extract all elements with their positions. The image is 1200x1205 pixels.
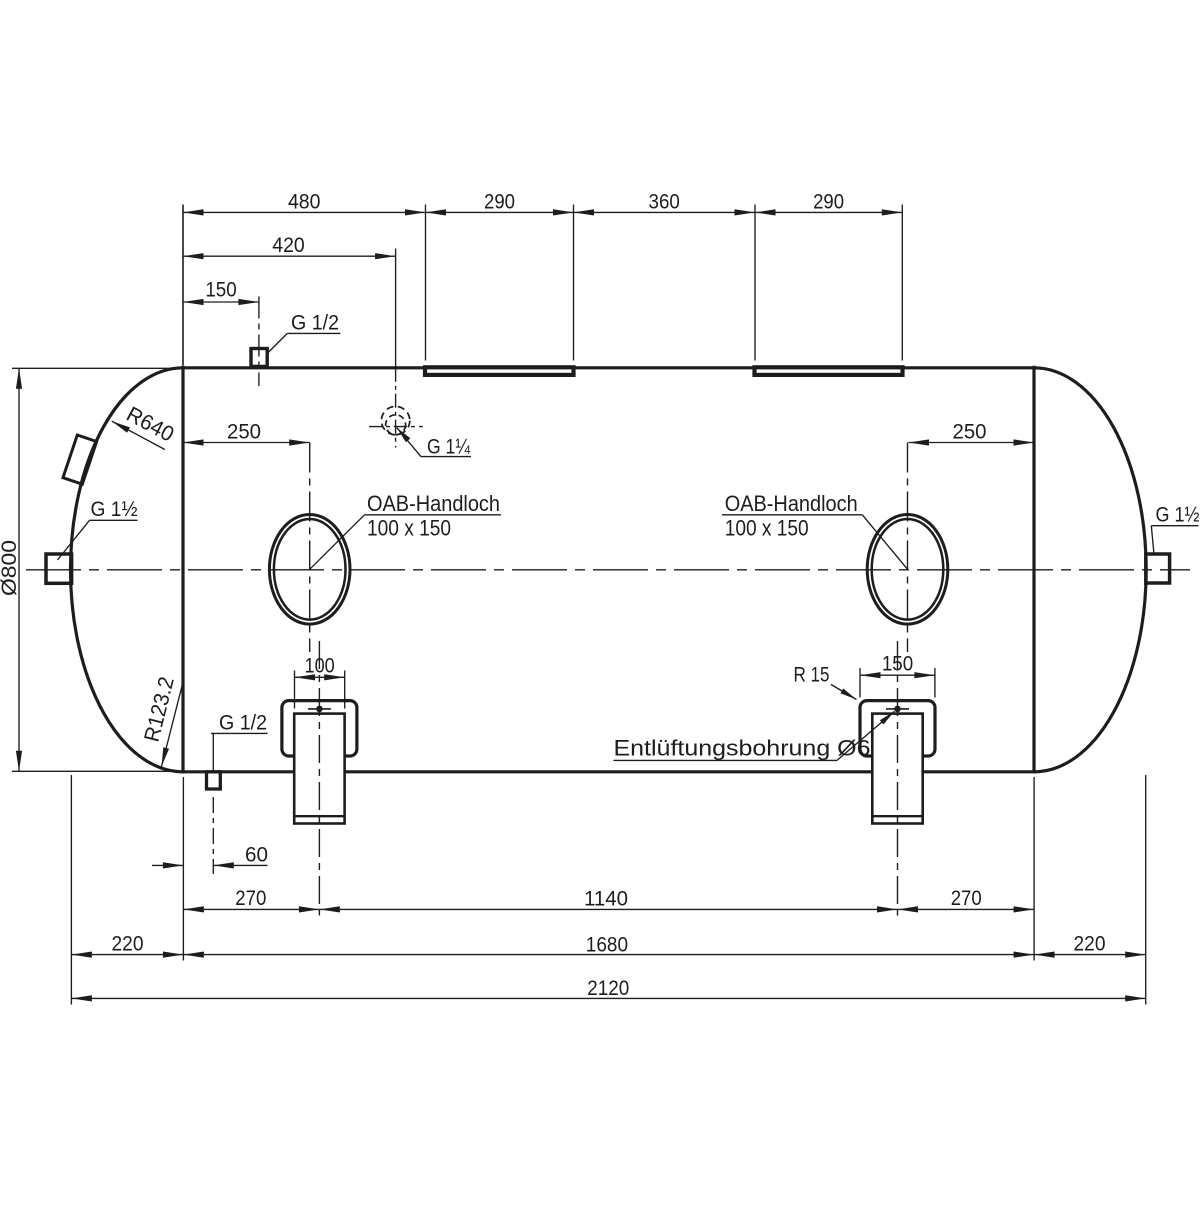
svg-text:270: 270 bbox=[235, 886, 266, 910]
svg-text:220: 220 bbox=[112, 932, 144, 956]
svg-text:G 1/2: G 1/2 bbox=[291, 311, 339, 335]
svg-text:480: 480 bbox=[288, 189, 321, 213]
svg-text:100: 100 bbox=[305, 653, 335, 677]
svg-text:G 1½: G 1½ bbox=[1156, 503, 1200, 527]
svg-text:360: 360 bbox=[649, 189, 680, 213]
svg-text:100 x 150: 100 x 150 bbox=[725, 516, 809, 541]
svg-text:420: 420 bbox=[272, 233, 305, 257]
svg-text:G 1½: G 1½ bbox=[91, 497, 138, 521]
svg-text:1680: 1680 bbox=[586, 933, 628, 957]
svg-text:100 x 150: 100 x 150 bbox=[367, 516, 451, 541]
svg-text:OAB-Handloch: OAB-Handloch bbox=[725, 491, 858, 516]
svg-text:Ø800: Ø800 bbox=[0, 540, 21, 596]
svg-text:290: 290 bbox=[813, 189, 844, 213]
svg-text:250: 250 bbox=[953, 420, 987, 444]
svg-text:Entlüftungsbohrung Ø6: Entlüftungsbohrung Ø6 bbox=[614, 735, 871, 760]
svg-text:1140: 1140 bbox=[584, 886, 628, 910]
svg-text:270: 270 bbox=[951, 886, 982, 910]
svg-text:G 1/2: G 1/2 bbox=[219, 710, 267, 734]
svg-text:290: 290 bbox=[484, 189, 515, 213]
svg-text:2120: 2120 bbox=[587, 976, 629, 1000]
svg-text:250: 250 bbox=[227, 420, 261, 444]
svg-text:60: 60 bbox=[245, 842, 268, 866]
svg-text:220: 220 bbox=[1074, 932, 1106, 956]
svg-text:R 15: R 15 bbox=[794, 662, 830, 686]
svg-text:OAB-Handloch: OAB-Handloch bbox=[367, 491, 500, 516]
svg-text:G 1¼: G 1¼ bbox=[427, 434, 471, 458]
svg-text:150: 150 bbox=[205, 278, 236, 302]
svg-text:150: 150 bbox=[882, 652, 913, 676]
